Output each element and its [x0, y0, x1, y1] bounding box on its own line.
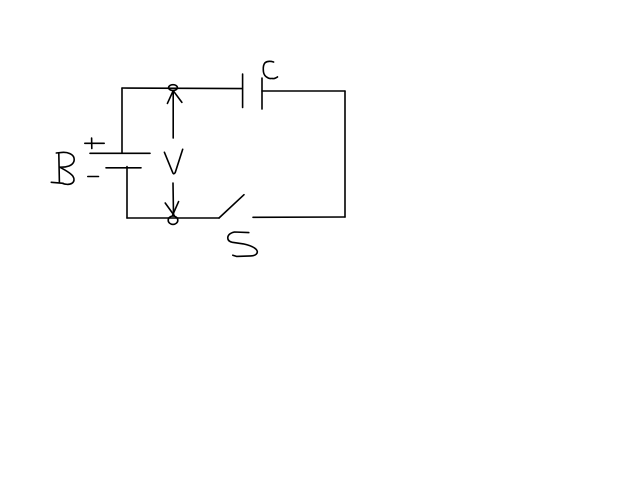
wire top left horizontal	[122, 87, 242, 90]
label C	[263, 61, 277, 78]
battery B top plate (+)	[90, 152, 150, 154]
label S	[228, 232, 258, 256]
label -	[88, 176, 99, 178]
capacitor C left plate	[242, 74, 244, 108]
battery B bottom plate (-)	[106, 167, 141, 169]
wire right vertical	[344, 91, 346, 217]
node top circle	[169, 85, 178, 91]
voltmeter arrow up head	[167, 91, 182, 104]
voltmeter arrow up shaft	[172, 91, 174, 138]
wire left vertical	[121, 88, 123, 153]
wire switch contact to right	[253, 216, 345, 218]
wire top right horizontal	[262, 90, 345, 92]
capacitor C right plate	[261, 78, 263, 109]
switch S blade	[219, 195, 244, 218]
wire battery to bottom	[126, 167, 128, 219]
wire bottom left horizontal	[127, 217, 219, 219]
node bottom circle	[168, 216, 178, 224]
label V	[164, 149, 182, 174]
voltmeter arrow down head	[165, 202, 178, 216]
label B	[51, 152, 74, 184]
label +	[85, 138, 104, 149]
voltmeter arrow down shaft	[172, 183, 175, 215]
